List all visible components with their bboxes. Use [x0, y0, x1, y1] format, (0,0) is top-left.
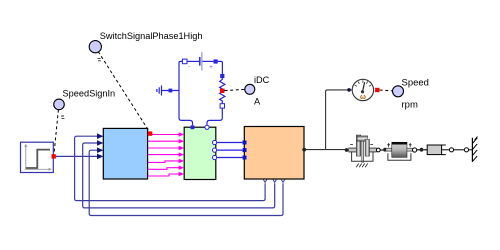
svg-text:SpeedSignIn: SpeedSignIn	[63, 88, 116, 98]
svg-text:iDC: iDC	[254, 75, 270, 85]
svg-text:+: +	[209, 65, 213, 71]
svg-text:SwitchSignalPhase1High: SwitchSignalPhase1High	[100, 31, 203, 41]
svg-text:Speed: Speed	[402, 78, 429, 89]
svg-text:ω: ω	[360, 94, 366, 101]
svg-text:rpm: rpm	[402, 100, 418, 111]
svg-text:A: A	[254, 96, 261, 106]
svg-text:-: -	[188, 65, 190, 71]
